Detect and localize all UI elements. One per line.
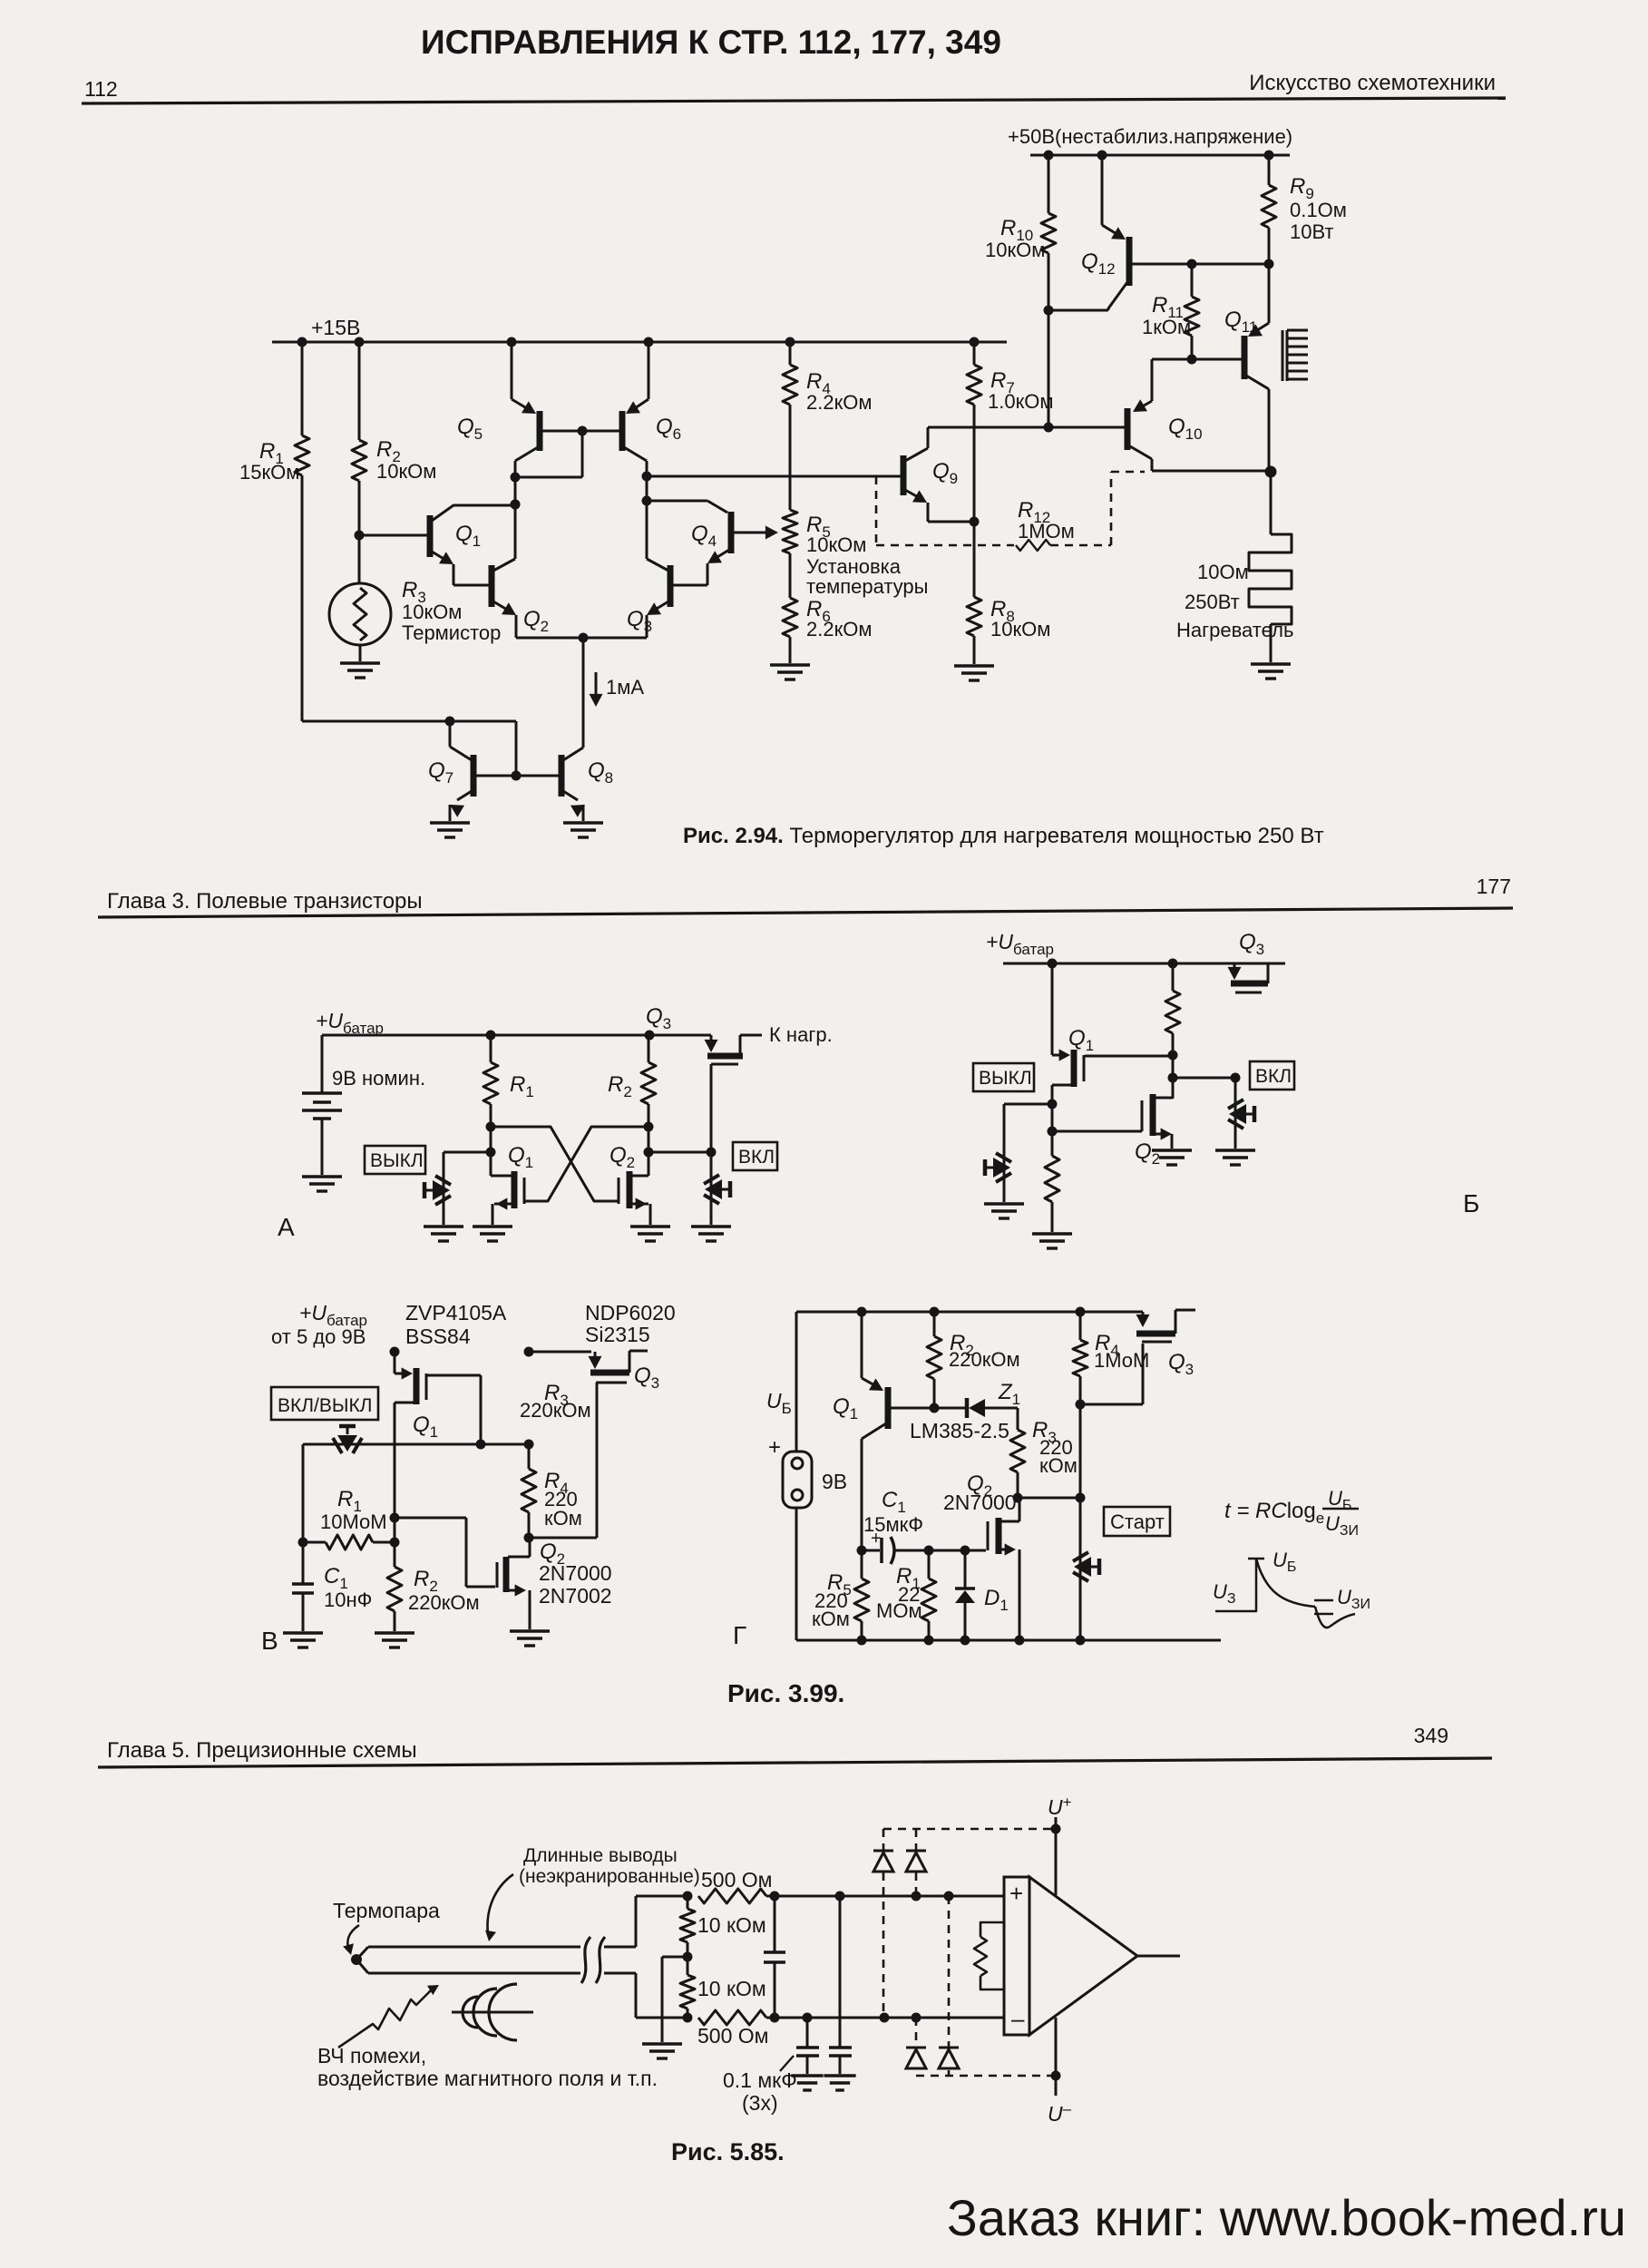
label Z1 (998, 1380, 1020, 1408)
resistor bottom B (1045, 1156, 1059, 1232)
label dlinnye (519, 1845, 700, 1887)
label Q8 (588, 758, 613, 787)
wire Q2 gate V (395, 1518, 495, 1587)
svg-text:от 5 до 9В: от 5 до 9В (271, 1325, 366, 1348)
svg-text:ИСПРАВЛЕНИЯ К СТР. 112, 177,: ИСПРАВЛЕНИЯ К СТР. 112, 177, 349 (421, 24, 1001, 61)
svg-text:250Вт: 250Вт (1185, 591, 1240, 613)
ground ON B (1215, 1150, 1255, 1165)
resistor R2 A (641, 1035, 656, 1158)
label R4 V (544, 1469, 582, 1530)
resistor R5 G (854, 1550, 869, 1640)
label R5 G (812, 1570, 852, 1630)
svg-text:Б: Б (1463, 1189, 1479, 1217)
cable break (581, 1937, 605, 1983)
svg-text:500 Ом: 500 Ом (697, 2024, 768, 2048)
svg-text:9В номин.: 9В номин. (332, 1067, 425, 1090)
label R2 (376, 437, 436, 483)
label heater (1176, 561, 1293, 641)
diode clamp C (939, 1896, 959, 2076)
label UZI G (1337, 1586, 1370, 1612)
wire Q1 gate V (426, 1375, 486, 1450)
ground battery A (302, 1177, 342, 1191)
svg-text:кОм: кОм (544, 1507, 582, 1530)
svg-text:ВКЛ: ВКЛ (738, 1147, 775, 1168)
svg-text:15кОм: 15кОм (239, 461, 299, 484)
label U- supply (1048, 2100, 1072, 2126)
wire rail A (322, 1031, 711, 1041)
wire Q9c-Q10b (928, 423, 1126, 433)
label Q1 G (833, 1394, 858, 1422)
svg-text:ZVP4105A: ZVP4105A (405, 1301, 507, 1325)
svg-text:10МоМ: 10МоМ (320, 1510, 387, 1533)
zener Z1 (934, 1398, 1018, 1418)
label VCh (317, 2044, 658, 2090)
transistor Q4 (647, 501, 731, 585)
wire bottom bus (775, 2013, 1005, 2023)
wire onoff V (303, 1440, 534, 1450)
svg-text:1мА: 1мА (606, 676, 644, 699)
label Q4 (691, 522, 717, 550)
heater (1249, 472, 1292, 662)
capacitor diff (764, 1896, 785, 2018)
transistor Q6 (622, 342, 652, 559)
ground mid (642, 2044, 682, 2058)
svg-text:2.2кОм: 2.2кОм (806, 618, 872, 640)
waveform G (1215, 1559, 1355, 1628)
capacitor gnd 2 (829, 1896, 852, 2074)
label Q10 (1168, 415, 1203, 443)
wire left V (298, 1444, 308, 1548)
transistor Q7 (450, 721, 560, 821)
box ON A (733, 1142, 777, 1170)
label A (278, 1213, 295, 1241)
svg-text:Рис. 3.99.: Рис. 3.99. (727, 1679, 844, 1707)
wire mirror base (515, 426, 622, 478)
resistor R10 (1041, 155, 1056, 427)
diode clamp A (873, 1829, 893, 2018)
label +Ubat A (316, 1009, 384, 1037)
formula G (1224, 1487, 1359, 1539)
wire rail G (796, 1307, 1143, 1317)
wire U- (1055, 2018, 1058, 2096)
label +Ubat V (271, 1301, 367, 1348)
resistor R1 (295, 342, 309, 721)
svg-text:МОм: МОм (876, 1599, 922, 1622)
wire bottom rail G (796, 1636, 1221, 1646)
label R6 (806, 597, 872, 640)
svg-text:Г: Г (733, 1621, 746, 1649)
svg-text:500 Ом: 500 Ом (701, 1868, 772, 1892)
transistor Q2 (492, 559, 516, 638)
pushbutton ONOFF V (333, 1426, 362, 1453)
svg-text:t = RCloge: t = RCloge (1224, 1499, 1324, 1527)
thermocouple wires (356, 1947, 580, 1973)
ground Q8 (563, 823, 603, 837)
svg-text:+50В(нестабилиз.напряжение): +50В(нестабилиз.напряжение) (1008, 125, 1292, 148)
svg-text:В: В (261, 1627, 278, 1655)
ground R3 (340, 663, 380, 678)
pushbutton OFF A (424, 1152, 489, 1225)
mosfet Q2 V (497, 1538, 530, 1629)
capacitor C1 V (292, 1542, 314, 1631)
mosfet Q2 G (929, 1498, 1019, 1640)
wire Q2-Q3 gate A (648, 1148, 717, 1158)
svg-text:10 кОм: 10 кОм (697, 1913, 766, 1937)
mosfet Q1 A (491, 1127, 524, 1225)
ground cap 2 (824, 2076, 855, 2090)
label K nagr (769, 1023, 833, 1046)
pushbutton ON B (1228, 1078, 1254, 1149)
label Q3 B (1239, 930, 1264, 958)
wire Q1 gate B (1085, 1051, 1178, 1061)
label R1 (239, 439, 299, 484)
svg-text:ВКЛ/ВЫКЛ: ВКЛ/ВЫКЛ (278, 1395, 372, 1416)
mosfet Q3 A (705, 1035, 763, 1152)
label R8 (990, 597, 1050, 640)
label +Ubat B (986, 930, 1054, 958)
label Q5 (457, 415, 483, 443)
svg-text:2N7000: 2N7000 (539, 1561, 612, 1585)
svg-text:+: + (768, 1435, 781, 1460)
label V (261, 1627, 278, 1655)
wire battery bottom G (795, 1508, 798, 1640)
rf squiggle arrow (338, 1985, 439, 2048)
arrow dlinnye (485, 1874, 513, 1941)
mosfet Q2 B (1052, 1094, 1173, 1149)
label Q1 A (508, 1143, 533, 1171)
capacitor C1 G (862, 1537, 934, 1564)
svg-text:10Ом: 10Ом (1197, 561, 1249, 583)
wire +50V rail (1030, 151, 1290, 161)
wire gate Q3 B (1173, 1073, 1241, 1083)
resistor R11 (1185, 264, 1199, 365)
wire U+ (1055, 1817, 1058, 1895)
chapter 3 rule (98, 908, 1513, 917)
ground R8 (954, 666, 994, 680)
watermark book order (947, 2189, 1626, 2246)
thermistor R3 (329, 535, 391, 661)
resistor R1 G (922, 1550, 936, 1640)
svg-text:0.1 мкФ: 0.1 мкФ (723, 2068, 797, 2092)
ground OFF B (984, 1204, 1024, 1218)
resistor R1 V (303, 1535, 395, 1549)
diode clamp B (906, 1829, 926, 1896)
box Start G (1104, 1507, 1170, 1536)
svg-text:ВЫКЛ: ВЫКЛ (370, 1150, 424, 1171)
label NDP6020 (585, 1301, 676, 1346)
mosfet Q1 B (1048, 963, 1085, 1156)
svg-text:температуры: температуры (806, 575, 928, 598)
label R3 G (1032, 1418, 1078, 1477)
ground R6 (770, 665, 810, 679)
svg-text:Рис. 2.94. Терморегулятор для: Рис. 2.94. Терморегулятор для нагревател… (683, 824, 1324, 848)
ground C1 V (283, 1633, 323, 1647)
magnetic arcs (452, 1984, 533, 2040)
svg-text:1.0кОм: 1.0кОм (988, 390, 1053, 413)
label R1 G (876, 1564, 922, 1622)
resistor R2 V (387, 1542, 402, 1631)
wire Q4 wiper (733, 526, 778, 540)
label G (733, 1621, 746, 1649)
svg-text:220кОм: 220кОм (408, 1591, 480, 1614)
page number 112 (84, 77, 118, 101)
label Q6 (656, 415, 681, 443)
mosfet Q3 G (1080, 1310, 1195, 1404)
svg-text:10кОм: 10кОм (985, 239, 1045, 261)
svg-text:349: 349 (1414, 1724, 1448, 1747)
ground Q7 (430, 823, 470, 837)
svg-text:(3x): (3x) (742, 2091, 778, 2115)
label R3 V (520, 1381, 591, 1422)
label R1 V (320, 1487, 387, 1533)
ground Q1 A (473, 1227, 512, 1241)
ground Q2 B (1152, 1150, 1192, 1165)
label R12 (1018, 498, 1075, 543)
resistor R4 V (522, 1444, 536, 1538)
chapter 5 heading (107, 1738, 417, 1763)
wire R4 bottom V (524, 1533, 598, 1543)
arrow termopara (343, 1925, 359, 1955)
potentiometer R5 (783, 510, 797, 598)
label Q3 A (646, 1004, 671, 1032)
svg-text:0.1Ом: 0.1Ом (1290, 199, 1347, 221)
ground cap 1 (791, 2076, 823, 2090)
label R4 G (1094, 1331, 1149, 1372)
svg-text:ВЧ помехи,: ВЧ помехи, (317, 2044, 426, 2068)
dashed R12 feedback (876, 472, 1145, 551)
wire R4-start G (1079, 1404, 1082, 1550)
svg-text:Термистор: Термистор (402, 621, 501, 644)
svg-text:10кОм: 10кОм (990, 618, 1050, 640)
ground Q2 A (630, 1227, 670, 1241)
label Q1 B (1068, 1026, 1094, 1054)
label R5 (806, 513, 928, 598)
opamp internal resistor (974, 1922, 1004, 1989)
svg-text:1МоМ: 1МоМ (1094, 1349, 1149, 1372)
mosfet Q3 V (524, 1347, 648, 1539)
opamp U1 (1004, 1877, 1137, 2035)
svg-text:Искусство схемотехники: Искусство схемотехники (1249, 71, 1496, 95)
label Q7 (428, 758, 453, 787)
pushbutton OFF B (985, 1153, 1011, 1182)
svg-text:Длинные выводы: Длинные выводы (523, 1845, 678, 1866)
ground resistor B (1032, 1234, 1072, 1248)
wire opamp output (1137, 1955, 1180, 1958)
label Q3 (627, 607, 652, 635)
label UB G (1273, 1549, 1296, 1575)
label Q2 G (943, 1471, 1017, 1514)
svg-text:1МОм: 1МОм (1018, 520, 1075, 543)
battery 9V G (783, 1452, 812, 1508)
svg-text:Заказ книг: www.book-med.ru: Заказ книг: www.book-med.ru (947, 2189, 1626, 2246)
svg-text:–: – (1011, 2005, 1025, 2032)
transistor Q1 (359, 500, 521, 586)
thermocouple junction (351, 1954, 362, 1965)
label 10k upper (697, 1913, 766, 1937)
label R2 G (949, 1331, 1020, 1371)
label Q11 (1224, 308, 1257, 336)
svg-text:10Вт: 10Вт (1290, 220, 1334, 243)
label Q3 G (1168, 1350, 1194, 1378)
diode D1 (955, 1550, 975, 1640)
caption fig 5.85 (671, 2138, 785, 2165)
page number 177 (1477, 875, 1511, 898)
chapter 3 heading (107, 889, 423, 914)
label C1 G (863, 1488, 923, 1549)
label D1 (984, 1586, 1009, 1614)
box OFF B (973, 1063, 1034, 1091)
capacitor gnd 1 (796, 2018, 819, 2074)
pushbutton ON A (704, 1152, 730, 1225)
resistor 10k upper (680, 1896, 695, 1962)
wire R3-R4 node G (1018, 1493, 1086, 1503)
label Q12 (1081, 249, 1116, 278)
svg-text:2N7000: 2N7000 (943, 1491, 1017, 1514)
svg-text:1кОм: 1кОм (1142, 316, 1191, 338)
resistor R1 A (483, 1035, 498, 1158)
chapter 5 rule (98, 1758, 1492, 1767)
wire after break (604, 1892, 693, 2023)
wire diffpair emitters (516, 633, 647, 643)
label R7 (988, 368, 1053, 413)
resistor R6 (783, 598, 797, 663)
pushbutton Start G (1073, 1550, 1099, 1640)
label R4 (806, 369, 872, 414)
label Q2 A (609, 1143, 635, 1171)
resistor 10k lower (680, 1957, 695, 2018)
label R9 (1290, 174, 1347, 243)
label battery plus G (768, 1435, 781, 1460)
resistor R9 (1262, 155, 1276, 264)
svg-text:А: А (278, 1213, 295, 1241)
svg-text:112: 112 (84, 77, 118, 101)
ground ON A (691, 1227, 731, 1241)
transistor Q1 G (857, 1312, 935, 1556)
label Q9 (932, 459, 958, 487)
ground R2 V (375, 1633, 414, 1647)
label LM385 (910, 1419, 1009, 1442)
svg-text:2N7002: 2N7002 (539, 1584, 612, 1608)
svg-text:NDP6020: NDP6020 (585, 1301, 676, 1325)
label 500 top (701, 1868, 772, 1892)
heatsink Q11 (1282, 330, 1308, 381)
wire cross-couple (491, 1127, 648, 1201)
label ZVP4105A (405, 1301, 507, 1348)
label U3 G (1213, 1580, 1236, 1607)
current arrow 1mA (590, 672, 645, 707)
dashed clamp rail top (883, 1824, 1061, 1834)
resistor R3 G (1010, 1408, 1025, 1503)
wire tail (582, 638, 585, 744)
transistor Q9 (903, 427, 974, 522)
resistor R2 G (927, 1312, 941, 1413)
running head (1249, 71, 1496, 95)
label Q2 B (1135, 1139, 1160, 1168)
wire mid tap (662, 1957, 687, 2042)
svg-text:кОм: кОм (812, 1608, 850, 1630)
label Ub G (766, 1389, 792, 1417)
wire R1-Q7 (302, 717, 522, 781)
label 9V nominal (332, 1067, 425, 1090)
svg-text:10кОм: 10кОм (806, 533, 866, 556)
caption fig 3.99 (727, 1679, 844, 1707)
svg-text:Глава 5. Прецизионные схемы: Глава 5. Прецизионные схемы (107, 1738, 417, 1763)
svg-text:220кОм: 220кОм (949, 1348, 1020, 1371)
mosfet Q3 B (1228, 963, 1269, 992)
wire top bus (775, 1892, 1005, 1901)
svg-text:10кОм: 10кОм (376, 460, 436, 483)
label R10 (985, 216, 1045, 261)
svg-text:ВКЛ: ВКЛ (1255, 1066, 1292, 1087)
label 500 bottom (697, 2024, 768, 2048)
label R11 (1142, 293, 1191, 338)
label Q2 (523, 607, 549, 635)
mosfet Q2 A (619, 1127, 650, 1225)
caption fig 2.94 (683, 824, 1324, 848)
label termopara (333, 1899, 440, 1922)
box ON B (1250, 1061, 1294, 1090)
label Q3 V (634, 1364, 659, 1392)
dashed clamp rail bottom (916, 2071, 1061, 2081)
svg-text:177: 177 (1477, 875, 1511, 898)
page number 349 (1414, 1724, 1448, 1747)
svg-text:Глава 3. Полевые транзисторы: Глава 3. Полевые транзисторы (107, 889, 423, 914)
label Q1 V (413, 1413, 438, 1441)
resistor 500 top (698, 1889, 780, 1903)
label +15V (311, 316, 360, 339)
wire rail B (1003, 959, 1285, 969)
svg-text:LM385-2.5: LM385-2.5 (910, 1419, 1009, 1442)
svg-text:Рис. 5.85.: Рис. 5.85. (671, 2138, 785, 2165)
label Q1 (455, 522, 481, 550)
transistor Q10 (1127, 359, 1277, 478)
resistor R4 (783, 342, 797, 510)
resistor 500 bottom (698, 2010, 780, 2025)
wire +15V rail (272, 337, 1007, 347)
svg-text:кОм: кОм (1039, 1454, 1078, 1477)
box ONOFF V (271, 1387, 378, 1420)
transistor Q8 (561, 638, 585, 821)
svg-text:ВЫКЛ: ВЫКЛ (979, 1068, 1032, 1089)
label 10k lower (697, 1977, 766, 2000)
label C1 V (324, 1564, 372, 1611)
label B (1463, 1189, 1479, 1217)
svg-text:Старт: Старт (1110, 1510, 1165, 1533)
box OFF A (365, 1146, 425, 1174)
header rule (82, 98, 1506, 103)
svg-text:10нФ: 10нФ (324, 1589, 372, 1611)
svg-text:+: + (871, 1529, 882, 1549)
label 9V G (822, 1470, 847, 1493)
label R1 A (510, 1072, 534, 1100)
battery A (302, 1035, 342, 1175)
wire battery top G (795, 1312, 798, 1452)
svg-text:220кОм: 220кОм (520, 1399, 591, 1422)
mosfet Q1 V (390, 1347, 427, 1548)
svg-text:Термопара: Термопара (333, 1899, 440, 1922)
resistor R8 (967, 522, 981, 664)
svg-text:Si2315: Si2315 (585, 1323, 650, 1346)
wire Q6-Q9 base (647, 475, 901, 478)
svg-text:воздействие магнитного поля и: воздействие магнитного поля и т.п. (317, 2067, 658, 2090)
label +50V (1008, 125, 1292, 148)
svg-text:2.2кОм: 2.2кОм (806, 391, 872, 414)
svg-text:+15В: +15В (311, 316, 360, 339)
svg-text:BSS84: BSS84 (405, 1325, 471, 1348)
wire OFF B (1004, 1104, 1052, 1202)
ground heater (1251, 664, 1291, 679)
transistor Q12 (1048, 155, 1274, 310)
